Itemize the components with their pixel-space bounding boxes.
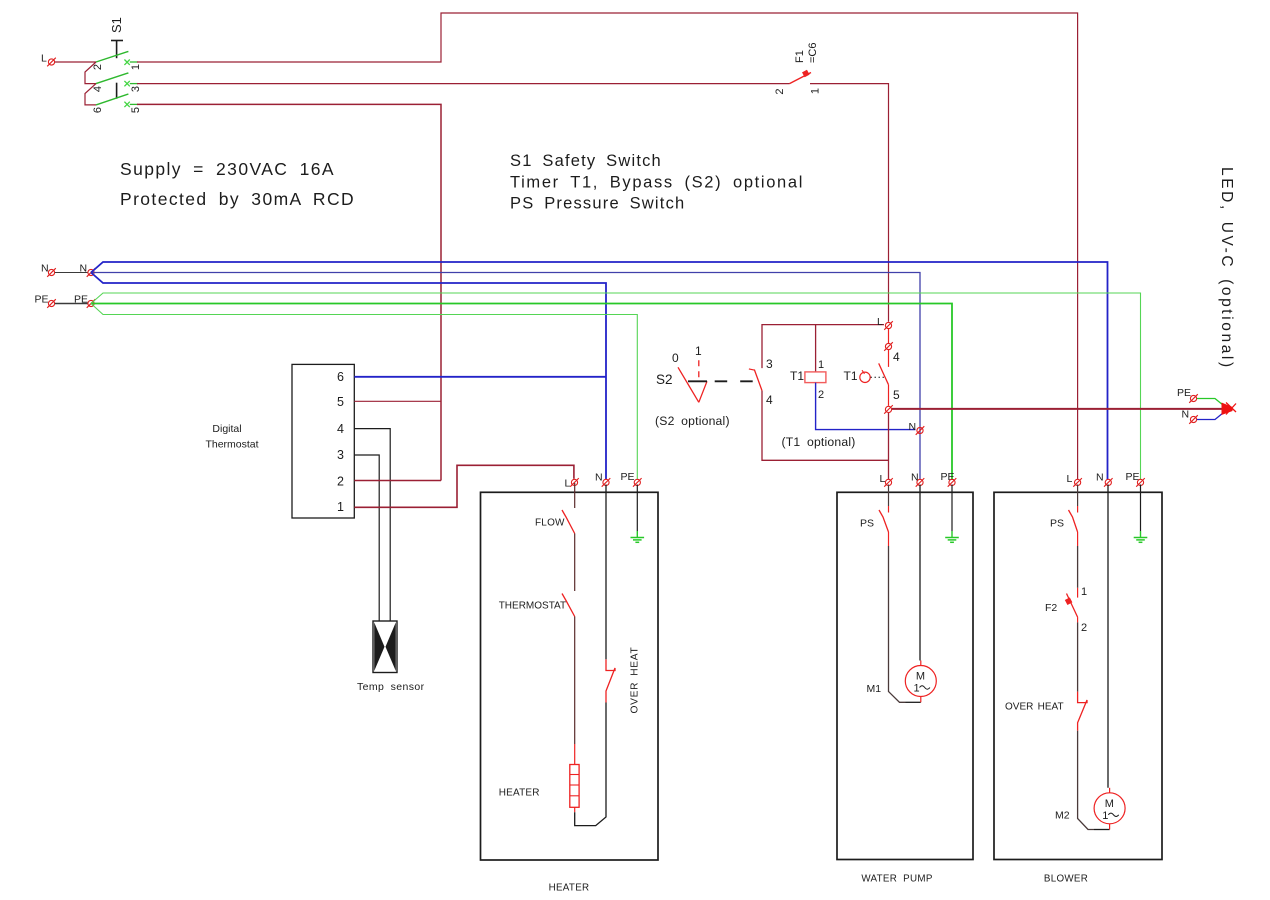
wire L drop pump (888, 485, 890, 507)
wire N drop pump (919, 485, 921, 661)
wire overheat to motor (1078, 731, 1094, 830)
wire N LED (1197, 411, 1226, 420)
svg-text:F1: F1 (794, 50, 806, 63)
wire pin2 to L feed (354, 480, 441, 482)
LED connector arrow (1222, 403, 1233, 416)
wire pin4 to sensor (354, 429, 390, 621)
svg-text:OVER HEAT: OVER HEAT (630, 647, 641, 714)
svg-text:N: N (595, 472, 603, 484)
wire PS to F2 (1077, 532, 1079, 546)
wire PE drop heater (636, 485, 638, 532)
svg-text:5: 5 (130, 107, 142, 113)
S2 arm to bar (699, 381, 707, 402)
svg-text:0: 0 (672, 351, 679, 365)
wire pin3 to sensor (354, 455, 379, 621)
svg-text:L: L (41, 53, 47, 65)
svg-text:L: L (880, 473, 886, 485)
wire red into element (574, 744, 576, 765)
S1 link segment b (116, 83, 118, 99)
wire N to blower (top) (91, 262, 1108, 479)
svg-text:(T1 optional): (T1 optional) (782, 435, 856, 449)
coil feed wire (815, 325, 817, 372)
wire to contact 4 (888, 350, 890, 367)
wire N link (55, 272, 88, 274)
F2 blade (1067, 594, 1078, 618)
motor M1 (905, 666, 936, 697)
terminal out (884, 405, 893, 414)
svg-text:M1: M1 (867, 683, 882, 695)
heater box (481, 492, 659, 860)
T1 coil body (805, 372, 826, 383)
contact 3-4 blade tick (749, 369, 754, 370)
svg-text:2: 2 (1081, 622, 1087, 634)
svg-text:Temp sensor: Temp sensor (357, 681, 425, 693)
S2 blade (678, 367, 699, 402)
S2 pivot bar (688, 380, 707, 382)
bypass wire upper left (762, 325, 884, 369)
svg-text:N: N (41, 263, 49, 275)
PS switch blade pump (879, 510, 889, 532)
svg-text:PE: PE (74, 294, 88, 306)
svg-text:Supply = 230VAC 16A: Supply = 230VAC 16A (120, 159, 335, 179)
wire S1 pin1 to top rail then to blower L (137, 13, 1078, 479)
S1 pin5 x marker (124, 102, 129, 107)
fuse F1 body square (802, 70, 810, 78)
wire L drop (574, 483, 576, 508)
wire element out red (574, 807, 576, 812)
wire element return path (575, 703, 606, 826)
wire PE link (55, 303, 88, 305)
svg-text:6: 6 (337, 370, 344, 384)
svg-text:PS Pressure Switch: PS Pressure Switch (510, 195, 685, 213)
svg-text:N: N (1096, 472, 1104, 484)
svg-text:1: 1 (695, 344, 702, 358)
svg-text:N: N (80, 263, 88, 275)
S1 pole3 blade (96, 94, 128, 105)
svg-text:FLOW: FLOW (535, 518, 565, 529)
svg-text:3: 3 (337, 448, 344, 462)
svg-text:BLOWER: BLOWER (1044, 874, 1088, 885)
svg-text:5: 5 (337, 395, 344, 409)
svg-text:1: 1 (1081, 586, 1087, 598)
svg-text:T1: T1 (844, 369, 858, 383)
svg-text:L: L (1067, 473, 1073, 485)
S1 pin5 green lead (130, 103, 138, 105)
wire PE to water pump (middle) (91, 304, 952, 480)
svg-text:4: 4 (893, 350, 900, 364)
svg-text:PE: PE (621, 471, 635, 483)
wire F2 to overheat (1077, 622, 1079, 691)
S2 dashed position 1 (698, 360, 700, 378)
svg-text:2: 2 (92, 64, 104, 70)
motor bottom stub (906, 697, 921, 703)
wire jog pole1-pole2 (85, 62, 96, 84)
S1 pin1 x marker (124, 60, 129, 65)
svg-text:Timer T1, Bypass (S2) opti: Timer T1, Bypass (S2) optional (510, 174, 804, 192)
contact 3-4 blade (754, 370, 762, 391)
wire jog pole2-pole3 (85, 84, 96, 105)
svg-text:N: N (909, 421, 917, 433)
svg-text:LED, UV-C (optional): LED, UV-C (optional) (1218, 167, 1235, 370)
wire PS to motor (888, 532, 890, 546)
flow switch blade (562, 510, 575, 534)
PS switch blade blower (1069, 510, 1078, 532)
S1 pin3 x marker (124, 81, 129, 86)
svg-text:L: L (877, 316, 883, 328)
svg-text:HEATER: HEATER (499, 788, 540, 799)
svg-text:OVER HEAT: OVER HEAT (1005, 702, 1064, 713)
svg-text:PE: PE (35, 294, 49, 306)
svg-text:3: 3 (130, 86, 142, 92)
svg-text:1: 1 (130, 64, 142, 70)
digital thermostat box (292, 364, 354, 518)
wire L to S1 pin2 (55, 61, 96, 63)
ground blower (1134, 538, 1148, 543)
svg-text:PE: PE (1177, 387, 1191, 399)
wire pin5 to L feed (354, 400, 441, 402)
wire L drop blower (1077, 485, 1079, 507)
svg-text:M: M (916, 671, 925, 683)
blower box (994, 492, 1162, 859)
svg-text:WATER PUMP: WATER PUMP (861, 874, 932, 885)
fuse F2 (1077, 588, 1079, 598)
svg-text:1: 1 (337, 500, 344, 514)
temp sensor bowtie left (374, 622, 384, 671)
svg-text:4: 4 (766, 393, 773, 407)
S1 pin1 green lead (130, 61, 138, 63)
svg-text:S1: S1 (109, 17, 124, 33)
wire timer out down to water pump L (888, 413, 890, 479)
contact terminal circle (884, 342, 893, 351)
wire S1 pin3 to fuse F1 (137, 83, 790, 85)
svg-text:Protected by 30mA RCD: Protected by 30mA RCD (120, 189, 355, 209)
svg-text:4: 4 (337, 422, 344, 436)
overheat contact heater (606, 659, 615, 702)
svg-text:PS: PS (860, 518, 874, 530)
wire thermostat to element (574, 617, 576, 745)
svg-text:(S2 optional): (S2 optional) (655, 414, 730, 428)
svg-text:2: 2 (337, 475, 344, 489)
heater element body (570, 765, 579, 808)
T1 clock symbol (860, 372, 870, 382)
wire N to water pump (middle) (91, 273, 920, 480)
ground heater (631, 538, 645, 543)
clock dotted link (871, 376, 885, 378)
ground pump (945, 538, 959, 543)
svg-text:Thermostat: Thermostat (205, 439, 258, 451)
svg-text:6: 6 (92, 107, 104, 113)
wire PE drop blower (1140, 485, 1142, 532)
wire F1 to T1 feed (810, 84, 889, 322)
temp sensor bowtie right (386, 622, 396, 671)
svg-text:4: 4 (92, 86, 104, 92)
wire flow to thermostat contact (574, 534, 576, 592)
svg-text:N: N (1182, 409, 1190, 421)
motor M2 (1094, 793, 1125, 824)
svg-text:1: 1 (818, 359, 824, 371)
wire PE to blower (top) (91, 293, 1141, 479)
svg-text:THERMOSTAT: THERMOSTAT (499, 601, 566, 612)
svg-text:PS: PS (1050, 518, 1064, 530)
svg-text:HEATER: HEATER (549, 883, 590, 894)
S1 actuator T bar (111, 40, 123, 42)
wire PE drop pump (951, 485, 953, 532)
wire pin1 relay out to heater L (354, 465, 574, 507)
wire pin6 N sense (blue) (354, 376, 606, 378)
wire N drop heater (605, 485, 607, 660)
svg-text:2: 2 (818, 389, 824, 401)
T1 contact blade (879, 363, 889, 384)
svg-text:S1 Safety Switch: S1 Safety Switch (510, 152, 662, 170)
wire N drop blower (1107, 485, 1109, 788)
svg-text:M2: M2 (1055, 810, 1070, 822)
wire S1 pin5 down to thermostat feed (137, 104, 441, 480)
fuse F1 blade (790, 73, 812, 84)
coil wire to N (blue) (816, 383, 916, 430)
svg-text:S2: S2 (656, 372, 673, 387)
F2 body square (1065, 597, 1073, 605)
svg-text:F2: F2 (1045, 602, 1057, 614)
svg-text:M: M (1105, 798, 1114, 810)
temp sensor body (373, 621, 397, 673)
water pump box (837, 492, 973, 859)
svg-text:T1: T1 (790, 369, 804, 383)
overheat contact blower (1078, 692, 1087, 731)
S1 pin3 green lead (130, 83, 138, 85)
svg-text:Digital: Digital (212, 423, 241, 435)
svg-text:1: 1 (810, 88, 822, 94)
svg-text:5: 5 (893, 388, 900, 402)
wire L to contact (888, 329, 890, 343)
svg-text:1: 1 (913, 683, 919, 695)
thermostat switch blade (562, 594, 575, 617)
wire PE LED (1197, 399, 1226, 408)
S2 mechanical link dashes (715, 380, 754, 382)
svg-text:=C6: =C6 (807, 43, 819, 64)
svg-text:L: L (565, 478, 571, 490)
wire LED feed (892, 408, 1222, 410)
S1 pole2 blade (96, 73, 128, 84)
svg-text:2: 2 (774, 89, 786, 95)
wire contact to pin5 terminal (888, 385, 890, 406)
svg-text:PE: PE (941, 471, 955, 483)
S1 link segment a (116, 41, 118, 59)
wire N to heater (bottom) (91, 273, 606, 480)
svg-text:1: 1 (1102, 810, 1108, 822)
wire PE to heater (bottom) (91, 304, 637, 480)
bypass wire lower left and bottom (762, 391, 889, 461)
S1 pole1 blade (96, 51, 128, 62)
svg-text:3: 3 (766, 357, 773, 371)
